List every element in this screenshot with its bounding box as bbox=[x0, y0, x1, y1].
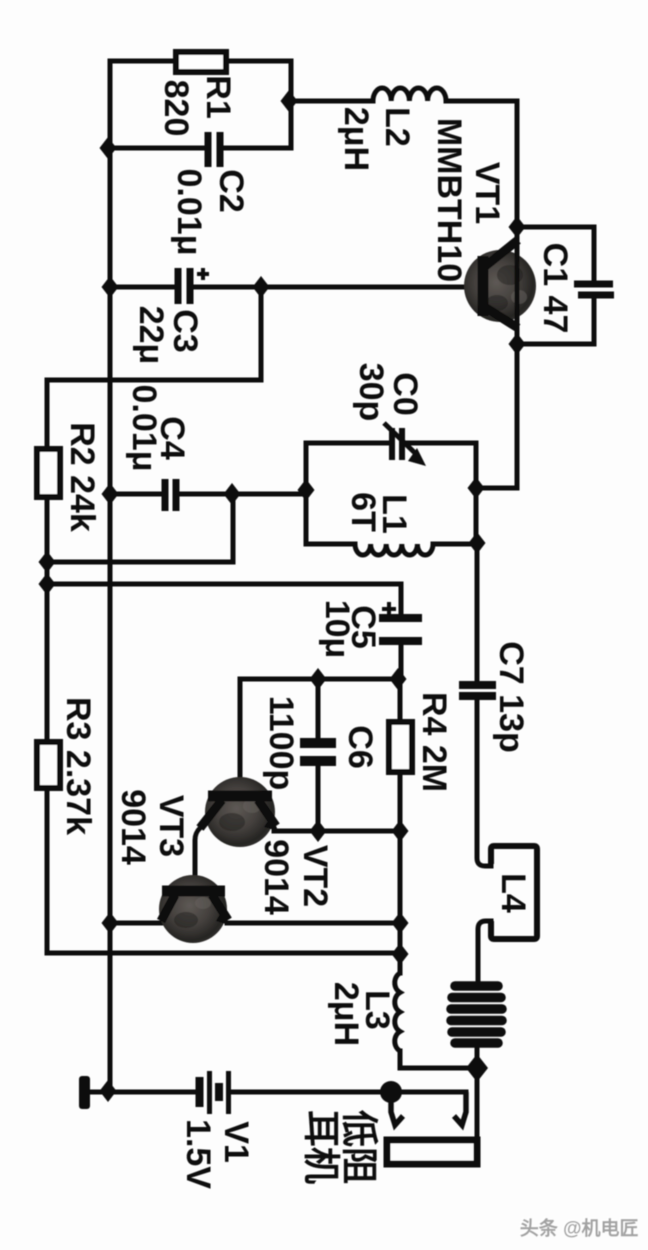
svg-text:0.01μ: 0.01μ bbox=[170, 169, 208, 256]
svg-text:0.01μ: 0.01μ bbox=[125, 385, 163, 472]
wire L3 bottom corner bbox=[400, 1051, 477, 1068]
wire R1 loop right side bbox=[289, 61, 294, 148]
label C7 13p bbox=[492, 641, 530, 753]
wire C2 row left bbox=[110, 146, 203, 151]
wire C6 upper lead bbox=[316, 679, 321, 738]
svg-text:R1: R1 bbox=[199, 75, 237, 118]
wire R3 to bottom rail bbox=[45, 788, 50, 953]
resistor R3 bbox=[37, 742, 60, 788]
label L2 2uH bbox=[337, 107, 416, 171]
svg-text:30p: 30p bbox=[352, 363, 390, 422]
capacitor C3 bbox=[178, 268, 209, 304]
label L3 2uH bbox=[327, 982, 396, 1046]
transistor VT1 bbox=[464, 240, 536, 330]
wire junction to earphone right bbox=[475, 1068, 480, 1140]
wire left main bus x=110 bbox=[108, 61, 113, 1092]
capacitor C6 bbox=[300, 743, 336, 761]
label L4 bbox=[494, 873, 532, 913]
wire C5 lower lead bbox=[399, 647, 404, 679]
svg-text:头条 @机电匠: 头条 @机电匠 bbox=[520, 1217, 639, 1240]
capacitor C4 bbox=[165, 479, 176, 511]
wire C4 row right bbox=[181, 492, 306, 497]
label VT1 MMBTH10 bbox=[430, 118, 506, 282]
capacitor C2 bbox=[208, 132, 220, 167]
svg-text:C0: C0 bbox=[386, 372, 424, 415]
label earphone chinese bbox=[301, 1110, 380, 1184]
label C0 30p bbox=[352, 363, 424, 422]
svg-text:C3: C3 bbox=[166, 309, 204, 352]
svg-text:R2 24k: R2 24k bbox=[63, 422, 101, 532]
svg-text:VT2: VT2 bbox=[296, 845, 334, 907]
wire earphone prong top bbox=[391, 1090, 466, 1095]
svg-text:C7 13p: C7 13p bbox=[492, 641, 530, 753]
svg-text:低阻: 低阻 bbox=[339, 1110, 380, 1184]
wire y831 row bbox=[274, 829, 400, 834]
wire R2 to R3 vertical bbox=[45, 497, 50, 742]
resistor R1 bbox=[176, 52, 226, 72]
wire tank right side bbox=[474, 443, 479, 544]
capacitor C1 bbox=[574, 284, 614, 295]
wire C2 row right bbox=[225, 146, 291, 151]
wire stub tank to C1 bottom bbox=[476, 344, 517, 488]
wire y679 row bbox=[240, 679, 398, 792]
wire VT3 base row left bbox=[110, 921, 162, 926]
capacitor C7 bbox=[459, 685, 496, 696]
label VT2 9014 bbox=[257, 839, 334, 915]
label VT3 9014 bbox=[114, 789, 190, 865]
wire R1 loop top bbox=[110, 59, 291, 64]
transistor VT2 bbox=[200, 777, 278, 847]
wire R4 upper lead bbox=[398, 679, 403, 722]
svg-text:9014: 9014 bbox=[257, 839, 295, 915]
inductor L2 bbox=[373, 88, 446, 101]
svg-text:耳机: 耳机 bbox=[301, 1110, 342, 1184]
svg-text:C2: C2 bbox=[212, 169, 250, 212]
label R1 820 bbox=[157, 75, 237, 136]
svg-text:2μH: 2μH bbox=[327, 982, 365, 1046]
wire y380 to R2 bbox=[47, 380, 261, 449]
earphone plug prongs bbox=[391, 1092, 466, 1125]
wire C3 row left bbox=[110, 285, 173, 290]
svg-text:9014: 9014 bbox=[114, 789, 152, 865]
wire VT1 collector vertical x=517 bbox=[515, 101, 520, 488]
wire C7 vertical upper bbox=[475, 544, 480, 681]
wire x400 down through junctions bbox=[398, 831, 403, 973]
label C1 47 bbox=[536, 243, 574, 334]
svg-text:VT1: VT1 bbox=[468, 162, 506, 224]
inductor L5 winding bbox=[451, 986, 502, 1043]
wire R4 lower lead bbox=[398, 772, 403, 831]
battery V1 bbox=[200, 1071, 229, 1114]
wire tank top left of C0 bbox=[306, 441, 389, 446]
wire y562 branch bbox=[47, 494, 233, 562]
svg-text:1.5V: 1.5V bbox=[179, 1119, 217, 1189]
svg-text:R4 2M: R4 2M bbox=[415, 692, 453, 792]
wire tank bottom right of L1 bbox=[433, 542, 476, 547]
svg-text:1100p: 1100p bbox=[262, 696, 300, 791]
earphone body bbox=[387, 1140, 477, 1164]
svg-text:L4: L4 bbox=[494, 873, 532, 913]
wire R1 right to L2 bbox=[291, 99, 373, 104]
label R3 2.37k bbox=[59, 697, 97, 835]
svg-text:R3 2.37k: R3 2.37k bbox=[59, 697, 97, 835]
resistor R4 bbox=[389, 722, 412, 772]
inductor L4 bbox=[491, 846, 537, 939]
wire battery row left bbox=[90, 1090, 196, 1095]
svg-text:L2: L2 bbox=[378, 107, 416, 147]
wire L2 to corner bbox=[446, 99, 517, 104]
wire VT2 emitter to VT3 bbox=[195, 829, 199, 890]
svg-text:6T: 6T bbox=[344, 492, 382, 532]
transistor VT3 bbox=[159, 875, 229, 943]
label L1 6T bbox=[344, 492, 413, 534]
wire L4 exit elbow bbox=[478, 921, 491, 986]
label C3 22u bbox=[132, 306, 204, 365]
svg-text:10μ: 10μ bbox=[318, 600, 356, 659]
label V1 1.5V bbox=[179, 1119, 255, 1189]
wire C6 lower lead bbox=[316, 766, 321, 831]
svg-text:C1 47: C1 47 bbox=[536, 243, 574, 334]
label R2 24k bbox=[63, 422, 101, 532]
svg-text:V1: V1 bbox=[217, 1121, 255, 1163]
wire node B down from C3 junction bbox=[259, 287, 264, 380]
label C4 0.01u bbox=[125, 385, 191, 472]
wire battery to earphone junction bbox=[231, 1090, 391, 1095]
svg-text:2μH: 2μH bbox=[337, 107, 375, 171]
inductor L3 bbox=[395, 973, 400, 1051]
svg-text:C6: C6 bbox=[341, 725, 379, 768]
wire C3 to VT1 base bbox=[194, 285, 468, 290]
wire C1 loop bottom bbox=[517, 297, 594, 344]
watermark bbox=[518, 1215, 638, 1240]
wire bottom rail y=953 bbox=[47, 951, 400, 956]
svg-text:MMBTH10: MMBTH10 bbox=[430, 118, 468, 282]
variable capacitor C0 bbox=[384, 423, 415, 460]
label 1100p bbox=[262, 696, 300, 791]
wire C7 vertical lower to L4 bbox=[477, 699, 491, 866]
svg-text:VT3: VT3 bbox=[152, 795, 190, 857]
label C6 bbox=[341, 725, 379, 768]
svg-text:820: 820 bbox=[157, 80, 195, 137]
wire tank left side bbox=[304, 443, 309, 544]
battery terminal bar bbox=[79, 1076, 90, 1109]
wire C4 row left bbox=[110, 492, 160, 497]
capacitor C5 bbox=[379, 602, 422, 641]
wire coil5 to junction bbox=[475, 1041, 480, 1068]
label R4 2M bbox=[415, 692, 453, 792]
label C5 10u bbox=[318, 600, 382, 659]
wire VT3 base row right bbox=[227, 921, 400, 926]
wire tank top right of C0 bbox=[405, 441, 476, 446]
wire C1 loop top bbox=[517, 227, 594, 281]
wire tank bottom left of L1 bbox=[306, 542, 355, 547]
svg-text:22μ: 22μ bbox=[132, 306, 170, 365]
wire y583 branch to C5 bbox=[47, 584, 401, 612]
inductor L1 bbox=[355, 544, 433, 555]
label C2 0.01u bbox=[170, 169, 250, 256]
resistor R2 bbox=[37, 449, 60, 497]
